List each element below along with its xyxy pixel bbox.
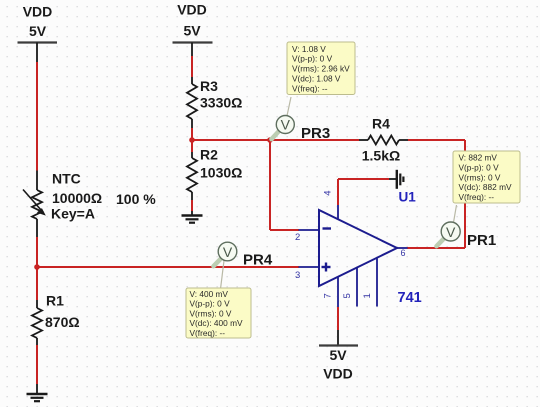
svg-text:2: 2 — [295, 232, 300, 243]
svg-text:7: 7 — [323, 293, 334, 298]
svg-text:PR3: PR3 — [301, 125, 330, 142]
svg-text:4: 4 — [323, 191, 334, 196]
wire node B to R2 — [191, 140, 193, 152]
svg-text:5V: 5V — [29, 23, 47, 39]
wire pin 7 to VDD — [337, 307, 339, 330]
ground (pin 4, rotated) — [389, 170, 403, 189]
svg-text:V(freq): --: V(freq): -- — [292, 83, 328, 93]
svg-text:100 %: 100 % — [116, 191, 156, 207]
wire node A to pin 3 — [37, 266, 299, 268]
power VDD top-left — [18, 4, 58, 63]
svg-text:PR1: PR1 — [467, 232, 496, 249]
svg-text:3330Ω: 3330Ω — [200, 95, 242, 111]
svg-text:6: 6 — [401, 248, 406, 258]
svg-text:10000Ω: 10000Ω — [52, 190, 102, 206]
svg-text:V(dc): 882 mV: V(dc): 882 mV — [459, 182, 512, 192]
svg-text:870Ω: 870Ω — [45, 314, 80, 330]
svg-text:5V: 5V — [329, 347, 347, 363]
svg-text:V: V — [281, 117, 291, 133]
svg-text:V(rms): 0 V: V(rms): 0 V — [459, 172, 501, 182]
svg-text:V: V — [446, 224, 456, 240]
resistor R1 — [32, 293, 80, 346]
svg-text:R4: R4 — [372, 116, 390, 132]
svg-text:1: 1 — [362, 293, 373, 298]
op-amp U1 741 — [295, 190, 422, 308]
svg-text:R1: R1 — [46, 293, 64, 309]
wire VDD to R3 — [191, 56, 193, 77]
svg-text:V(freq): --: V(freq): -- — [190, 328, 226, 338]
probe PR1 readout box — [453, 151, 520, 203]
svg-text:VDD: VDD — [177, 2, 207, 18]
svg-text:V(p-p): 0 V: V(p-p): 0 V — [190, 299, 231, 309]
wire node A to R1 — [36, 267, 38, 300]
svg-text:U1: U1 — [399, 190, 417, 205]
svg-text:5V: 5V — [183, 23, 201, 39]
svg-text:R2: R2 — [200, 147, 218, 163]
wire node PR3 to pin 2 — [270, 140, 299, 230]
svg-text:V(rms): 0 V: V(rms): 0 V — [190, 308, 232, 318]
svg-text:V(p-p): 0 V: V(p-p): 0 V — [459, 162, 500, 172]
svg-text:V: 1.08 V: V: 1.08 V — [292, 44, 326, 54]
svg-text:Key=A: Key=A — [51, 206, 95, 222]
wire VDD to NTC — [36, 62, 38, 171]
svg-text:PR4: PR4 — [243, 252, 273, 269]
svg-text:1.5kΩ: 1.5kΩ — [362, 148, 400, 164]
wire R4 to output (feedback) — [407, 140, 465, 248]
wire NTC to node A — [36, 237, 38, 267]
power VDD bottom — [319, 330, 358, 382]
svg-text:R3: R3 — [200, 78, 218, 94]
thermistor NTC — [23, 171, 102, 238]
ground (bottom-left) — [27, 384, 48, 401]
probe PR3 — [272, 97, 331, 142]
svg-text:V(dc): 400 mV: V(dc): 400 mV — [190, 318, 243, 328]
probe PR4 readout box — [186, 288, 251, 338]
wire pin 4 to ground — [338, 179, 389, 205]
power VDD top-middle — [173, 2, 213, 57]
svg-text:V(p-p): 0 V: V(p-p): 0 V — [292, 54, 333, 64]
node A junction — [34, 264, 40, 270]
svg-text:V(dc): 1.08 V: V(dc): 1.08 V — [292, 74, 341, 84]
wire R3 to node B — [191, 128, 193, 140]
svg-text:V: 882 mV: V: 882 mV — [459, 153, 498, 163]
resistor R2 — [187, 147, 242, 201]
svg-text:VDD: VDD — [323, 366, 353, 382]
resistor R3 — [187, 77, 242, 128]
svg-text:V(freq): --: V(freq): -- — [459, 192, 495, 202]
svg-text:V: V — [223, 244, 233, 260]
resistor R4 — [359, 116, 408, 164]
probe PR1 — [437, 205, 497, 249]
svg-text:NTC: NTC — [52, 171, 81, 187]
wire node PR3 to R4 — [270, 139, 359, 141]
svg-text:5: 5 — [342, 293, 353, 298]
probe PR4 — [214, 242, 273, 289]
node PR3 junction — [267, 137, 273, 143]
svg-text:1030Ω: 1030Ω — [200, 165, 242, 181]
svg-text:V: 400 mV: V: 400 mV — [190, 289, 229, 299]
node B junction — [189, 137, 195, 143]
svg-text:3: 3 — [295, 270, 300, 281]
svg-text:VDD: VDD — [23, 4, 53, 20]
wire node B to node PR3 — [192, 139, 270, 141]
ground (below R2) — [182, 211, 203, 223]
probe PR3 readout box — [287, 42, 355, 95]
wire R2 to ground — [191, 200, 193, 211]
svg-text:V(rms): 2.96 kV: V(rms): 2.96 kV — [292, 64, 350, 74]
svg-text:741: 741 — [398, 290, 422, 306]
wire R1 to ground — [36, 345, 38, 384]
